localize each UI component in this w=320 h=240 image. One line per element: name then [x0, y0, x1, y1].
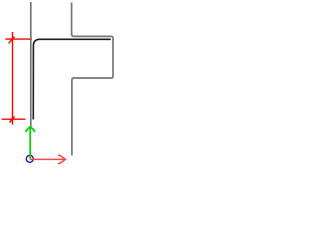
teal snap marker at extension line end: [30, 39, 32, 41]
green Y axis shaft: [29, 128, 31, 159]
red extension line top: [5, 38, 31, 40]
green Y axis arrowhead: [26, 127, 34, 133]
gray left edge line: [30, 2, 32, 126]
red oblique tick top: [9, 37, 15, 44]
blue origin circle: [26, 155, 33, 162]
red X axis arrowhead: [58, 155, 66, 163]
red X axis shaft: [30, 158, 65, 160]
red dimension line vertical: [12, 32, 14, 125]
gray profile edge path: [72, 3, 113, 156]
red oblique tick bottom: [10, 117, 15, 123]
black sketch polyline with fillet corner: [33, 39, 110, 119]
red extension line bottom: [2, 118, 26, 120]
